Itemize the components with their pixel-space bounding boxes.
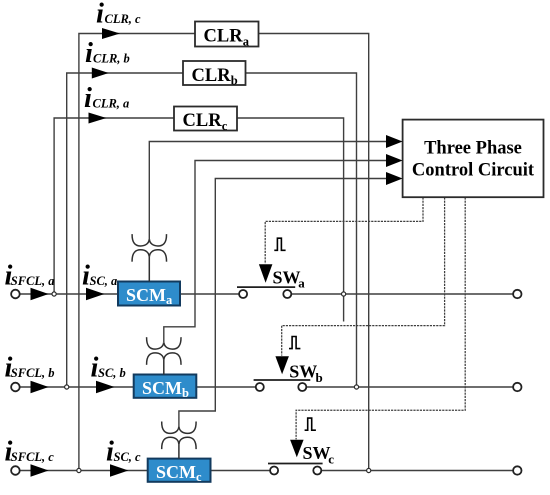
label SWa bbox=[273, 267, 306, 290]
label i_SFCL,c bbox=[5, 437, 55, 468]
svg-text:SFCL, c: SFCL, c bbox=[11, 450, 55, 464]
junction node phase c at x368 bbox=[367, 468, 371, 472]
svg-text:c: c bbox=[222, 119, 228, 133]
svg-text:c: c bbox=[328, 451, 334, 466]
SCM box SCMb bbox=[134, 375, 197, 400]
SCM box SCMa bbox=[118, 282, 180, 307]
svg-text:a: a bbox=[166, 293, 173, 307]
pulse symbol c bbox=[305, 418, 316, 430]
svg-text:c: c bbox=[196, 470, 202, 484]
label SWc bbox=[303, 443, 335, 466]
wire CLR line 1 right part to corner and down bbox=[259, 34, 369, 471]
terminal circle phase b right bbox=[513, 383, 521, 391]
svg-text:b: b bbox=[231, 74, 238, 88]
svg-text:i: i bbox=[84, 83, 92, 114]
terminal circle phase c right bbox=[513, 466, 521, 474]
pulse symbol a bbox=[274, 238, 285, 250]
label SWb bbox=[289, 362, 322, 385]
wire control input 3 from transformer c bbox=[179, 179, 388, 427]
arrowhead control input 2 bbox=[386, 154, 403, 167]
svg-text:SC, c: SC, c bbox=[114, 450, 142, 464]
switch SWa bbox=[237, 287, 295, 298]
wire CLR line 2 (i_CLR,b) bbox=[67, 73, 183, 387]
junction node phase b at x356 bbox=[354, 385, 358, 389]
pulse symbol b bbox=[289, 337, 300, 349]
arrow i_SC,b bbox=[96, 381, 115, 394]
wire phase b right segment bbox=[306, 386, 513, 388]
svg-text:SW: SW bbox=[273, 267, 301, 287]
CLR box CLRb bbox=[183, 61, 246, 88]
label i_SFCL,b bbox=[5, 353, 55, 384]
wire phase a left segment bbox=[20, 293, 239, 295]
gate arrow SWc bbox=[290, 440, 304, 457]
svg-text:a: a bbox=[298, 276, 305, 291]
CLR box CLRa bbox=[195, 22, 259, 49]
junction node phase a at x54 bbox=[52, 292, 56, 296]
terminal circle phase a right bbox=[513, 290, 521, 298]
terminal circle phase b left bbox=[11, 383, 20, 392]
junction node phase b at x67 bbox=[65, 385, 69, 389]
svg-text:Three Phase: Three Phase bbox=[424, 139, 522, 159]
svg-text:b: b bbox=[182, 386, 189, 400]
svg-text:b: b bbox=[316, 370, 323, 385]
SCM box SCMc bbox=[148, 459, 211, 484]
arrow i_SC,c bbox=[110, 464, 129, 477]
label i_SC,b bbox=[91, 353, 126, 384]
wire gate a dotted bbox=[265, 197, 423, 263]
svg-text:SW: SW bbox=[303, 443, 331, 463]
label i_SC,c bbox=[106, 437, 141, 468]
label i_SFCL,a bbox=[5, 261, 55, 292]
arrow i_CLR,a line3 bbox=[89, 113, 107, 124]
control box Three Phase Control Circuit bbox=[403, 120, 544, 198]
svg-text:i: i bbox=[96, 0, 104, 29]
wire CLR line 2 right part bbox=[246, 73, 357, 387]
svg-text:a: a bbox=[243, 34, 250, 48]
transformer Tc bbox=[162, 422, 196, 459]
CLR box CLRc bbox=[174, 107, 237, 133]
wire phase a right segment bbox=[291, 293, 513, 295]
svg-text:SCM: SCM bbox=[126, 285, 166, 305]
svg-text:SCM: SCM bbox=[142, 378, 182, 398]
svg-text:CLR: CLR bbox=[192, 66, 232, 86]
svg-text:CLR, b: CLR, b bbox=[93, 52, 130, 66]
arrow i_CLR,c line1 bbox=[102, 28, 120, 39]
switch SWb bbox=[254, 380, 311, 391]
arrowhead control input 3 bbox=[386, 172, 403, 185]
svg-text:CLR, a: CLR, a bbox=[93, 96, 130, 110]
transformer Tb bbox=[147, 337, 181, 374]
wire CLR line 1 (i_CLR,c) bbox=[79, 34, 195, 471]
wire CLR line 3 right part bbox=[237, 118, 344, 322]
arrow i_SFCL,a bbox=[31, 288, 49, 301]
wire gate b dotted bbox=[282, 197, 445, 355]
switch SWc bbox=[268, 464, 323, 475]
svg-text:CLR: CLR bbox=[183, 111, 223, 131]
label i_CLR,a bbox=[84, 83, 129, 114]
wire phase c left segment bbox=[20, 470, 270, 472]
svg-text:SFCL, b: SFCL, b bbox=[11, 366, 55, 380]
label i_CLR,b bbox=[85, 38, 130, 69]
svg-text:SC, b: SC, b bbox=[98, 366, 126, 380]
gate arrow SWb bbox=[275, 356, 289, 374]
arrowhead control input 1 bbox=[386, 135, 403, 148]
label i_SC,a bbox=[82, 261, 117, 292]
svg-text:SFCL, a: SFCL, a bbox=[11, 274, 55, 288]
svg-text:Control Circuit: Control Circuit bbox=[412, 161, 535, 181]
arrow i_SFCL,c bbox=[31, 464, 49, 477]
terminal circle phase c left bbox=[11, 466, 20, 475]
terminal circle phase a left bbox=[11, 290, 20, 299]
svg-text:CLR: CLR bbox=[204, 27, 244, 47]
arrow i_SC,a bbox=[86, 288, 104, 301]
wire control input 2 from transformer b bbox=[164, 161, 388, 343]
arrow i_CLR,b line2 bbox=[92, 68, 109, 79]
arrow i_SFCL,b bbox=[31, 381, 49, 394]
svg-text:SW: SW bbox=[289, 362, 317, 382]
wire control input 1 from transformer a bbox=[149, 142, 388, 240]
junction node phase c at x79 bbox=[77, 468, 81, 472]
wire gate c dotted bbox=[296, 197, 465, 439]
svg-text:i: i bbox=[85, 38, 93, 69]
wire CLR line 3 (i_CLR,a) bbox=[54, 118, 174, 294]
junction node phase a at x343 bbox=[342, 292, 346, 296]
svg-text:CLR, c: CLR, c bbox=[105, 12, 142, 26]
transformer Ta bbox=[132, 234, 166, 281]
svg-text:SC, a: SC, a bbox=[90, 274, 118, 288]
label i_CLR,c bbox=[96, 0, 141, 29]
wire phase c right segment bbox=[321, 470, 513, 472]
wire phase b left segment bbox=[20, 386, 256, 388]
gate arrow SWa bbox=[259, 264, 273, 283]
svg-text:SCM: SCM bbox=[156, 462, 196, 482]
